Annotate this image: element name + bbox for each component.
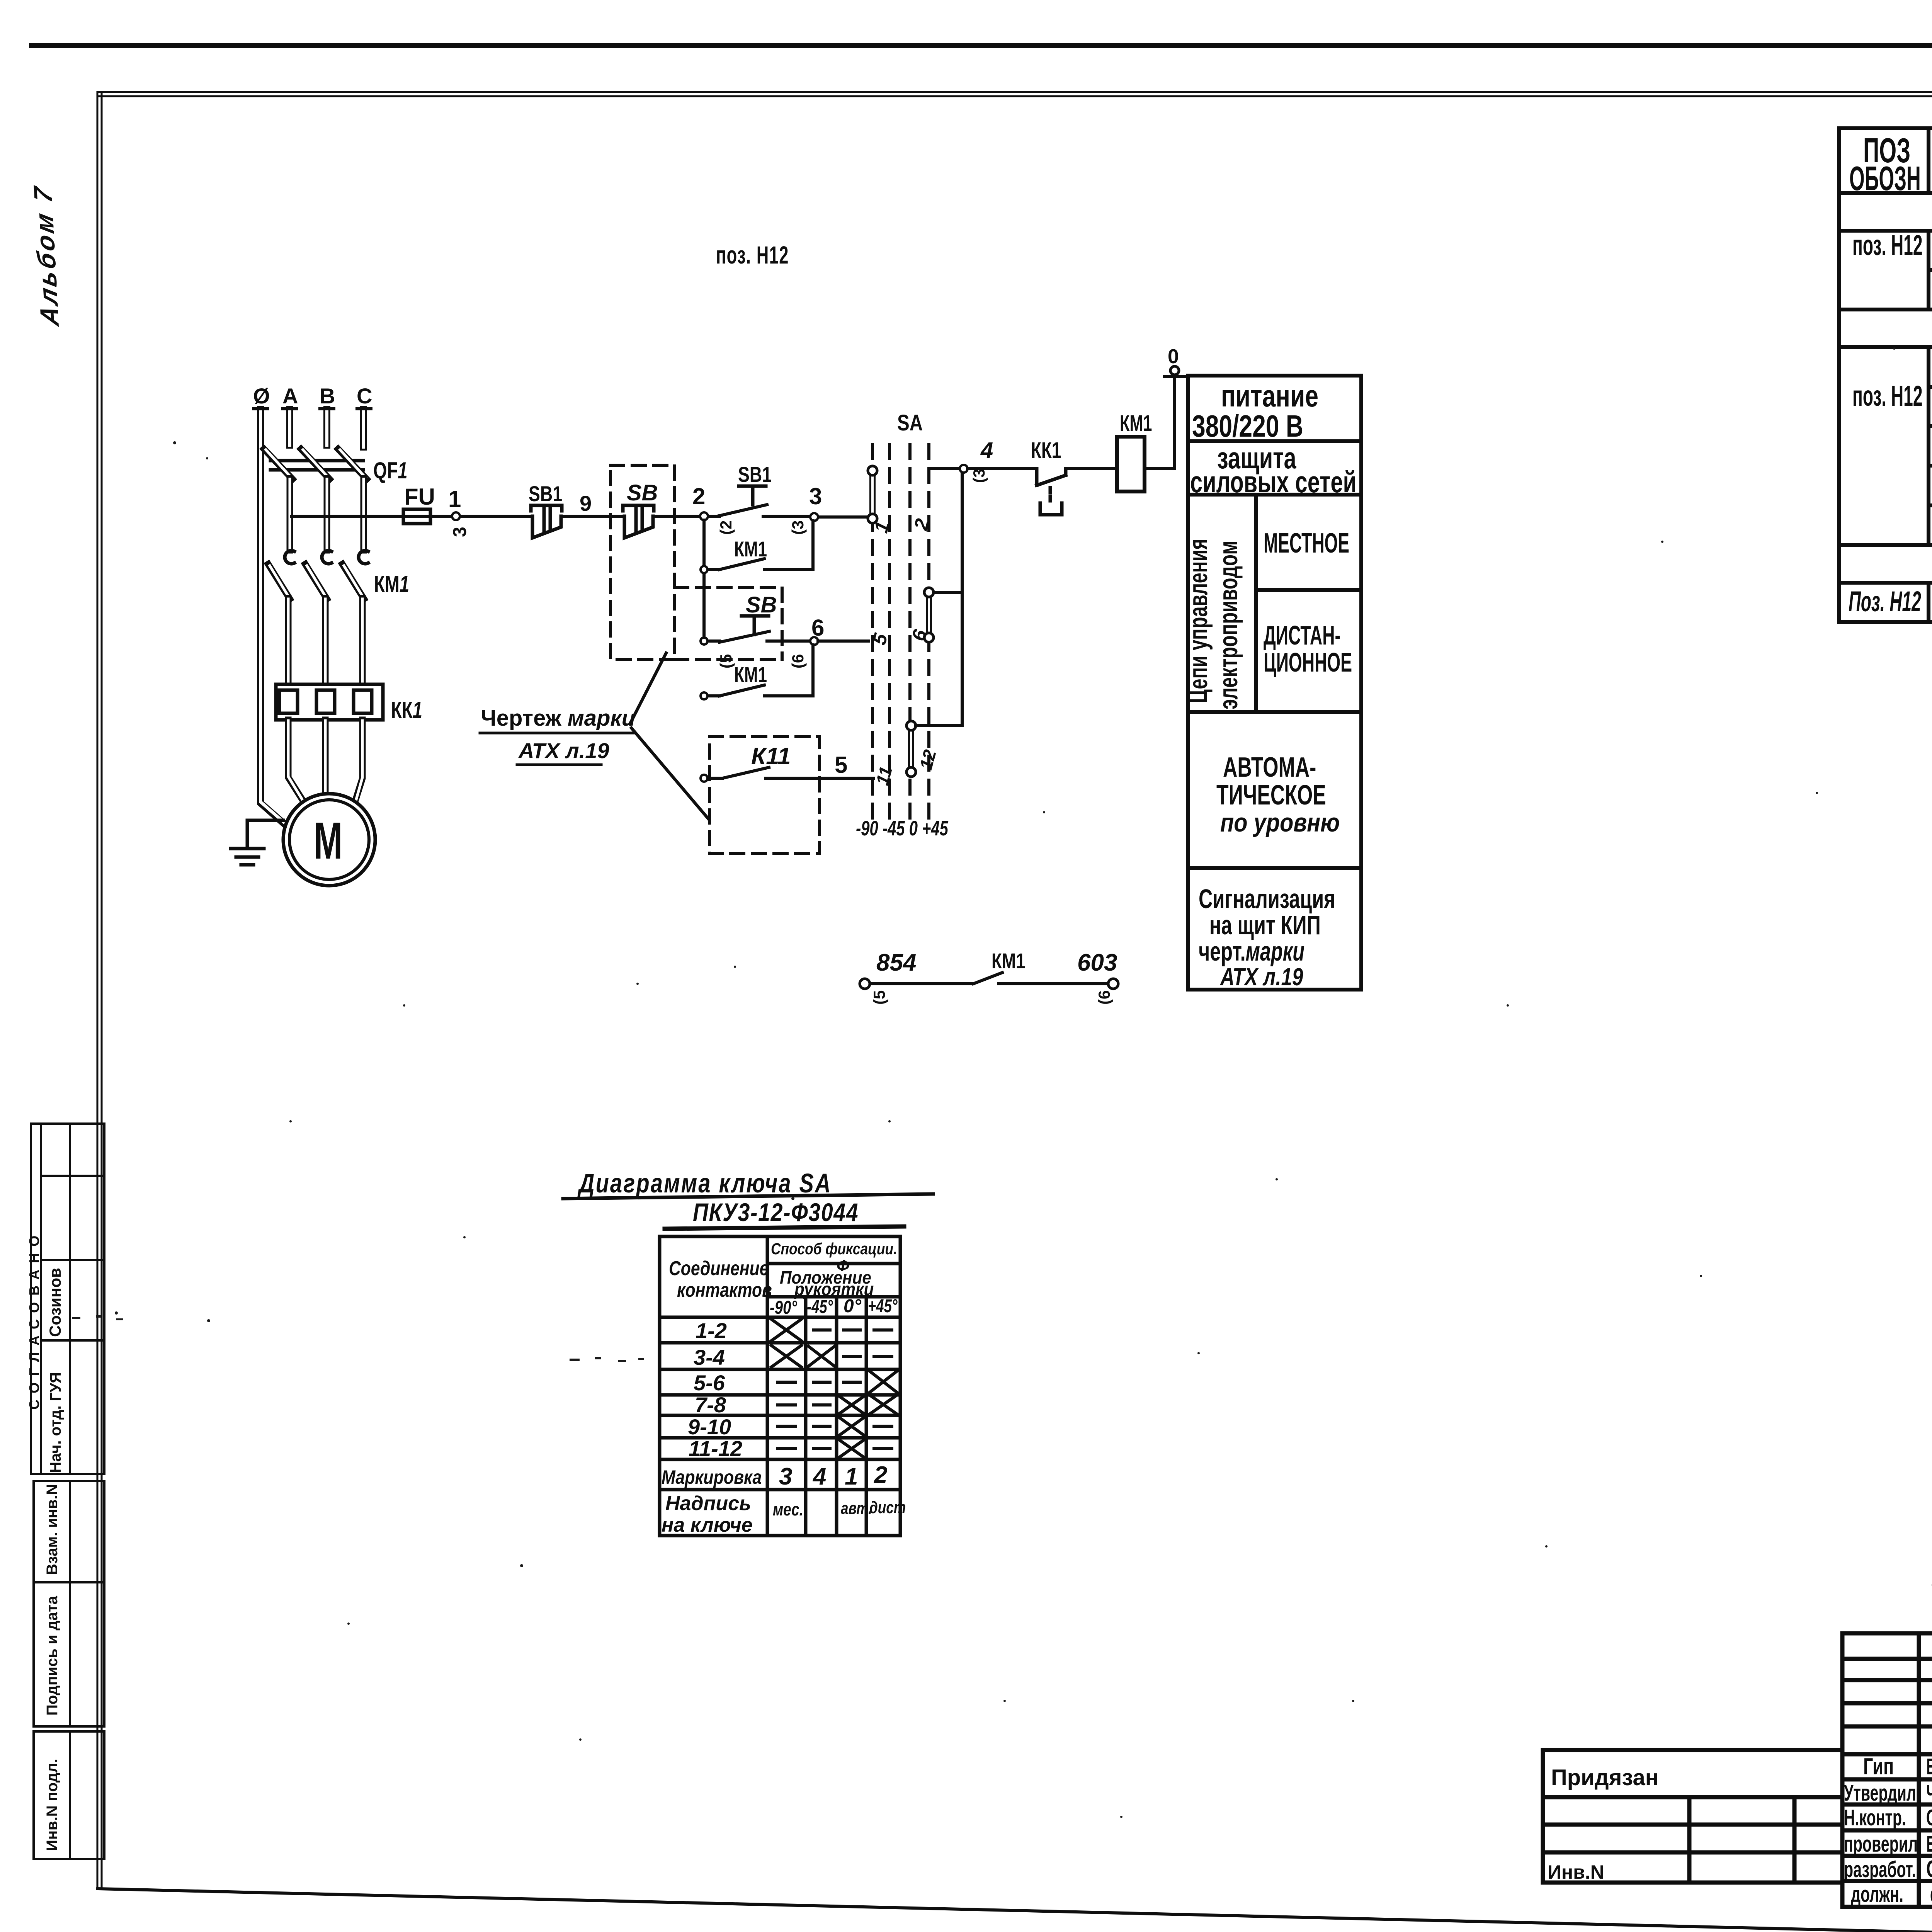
svg-text:FU: FU bbox=[404, 484, 435, 510]
connector SB1 (incoming plug) bbox=[531, 505, 562, 538]
push button SB (remote) bbox=[704, 616, 810, 642]
wire: SA to node 4 bbox=[929, 467, 961, 470]
leader lines bbox=[630, 653, 709, 819]
svg-text:9: 9 bbox=[580, 491, 592, 515]
svg-text:2: 2 bbox=[874, 1462, 887, 1488]
svg-text:на щит КИП: на щит КИП bbox=[1209, 910, 1321, 940]
circuit breaker QF1 pole C bbox=[338, 449, 367, 479]
motor M bbox=[283, 794, 375, 886]
svg-text:(3: (3 bbox=[970, 469, 988, 483]
svg-text:+45°: +45° bbox=[868, 1296, 898, 1316]
svg-text:ДИСТАН-: ДИСТАН- bbox=[1264, 621, 1340, 650]
svg-text:5-6: 5-6 bbox=[694, 1371, 725, 1395]
svg-text:3: 3 bbox=[450, 527, 470, 537]
contactor KM1 pole A (arc + blade) bbox=[285, 551, 294, 564]
svg-text:-90°: -90° bbox=[770, 1298, 797, 1318]
contactor coil KM1 bbox=[1117, 437, 1145, 492]
svg-text:(3: (3 bbox=[789, 520, 807, 535]
node 3 bbox=[810, 513, 818, 521]
key table X and dash marks bbox=[771, 1319, 897, 1458]
SA contact 1-2 bbox=[869, 475, 876, 514]
svg-text:603: 603 bbox=[1077, 949, 1117, 976]
stamp box Взам. инв.N bbox=[34, 1481, 104, 1582]
svg-text:QF1: QF1 bbox=[373, 458, 408, 483]
svg-text:КМ1: КМ1 bbox=[374, 571, 409, 597]
svg-text:А: А bbox=[282, 384, 298, 408]
svg-text:9-10: 9-10 bbox=[688, 1415, 731, 1439]
signal contact KM1 854-603 bbox=[860, 979, 870, 989]
svg-text:Взам. инв.N: Взам. инв.N bbox=[44, 1484, 61, 1575]
svg-text:3: 3 bbox=[779, 1463, 792, 1490]
svg-text:КМ1: КМ1 bbox=[992, 949, 1025, 973]
svg-text:Гип: Гип bbox=[1863, 1754, 1894, 1780]
svg-text:контактов: контактов bbox=[677, 1279, 772, 1301]
svg-text:поз. Н12: поз. Н12 bbox=[1852, 229, 1923, 261]
svg-text:Поз. Н12: Поз. Н12 bbox=[1849, 585, 1921, 617]
svg-text:проверил: проверил bbox=[1844, 1831, 1918, 1856]
svg-text:Чертеж марки: Чертеж марки bbox=[481, 706, 635, 731]
signature table rows bbox=[1842, 1659, 1932, 1907]
svg-text:ЦИОННОЕ: ЦИОННОЕ bbox=[1264, 648, 1352, 677]
circuit breaker QF1 pole A bbox=[264, 449, 293, 479]
svg-text:КМ1: КМ1 bbox=[734, 662, 767, 687]
svg-text:силовых сетей: силовых сетей bbox=[1190, 465, 1357, 499]
svg-text:(2: (2 bbox=[717, 520, 735, 535]
svg-text:1-2: 1-2 bbox=[696, 1318, 727, 1343]
dashed box: level relay K11 bbox=[709, 736, 820, 854]
contactor KM1 pole B bbox=[322, 551, 332, 564]
svg-text:3: 3 bbox=[809, 483, 822, 509]
svg-text:КК1: КК1 bbox=[1031, 437, 1061, 463]
thermal contact KK1 bbox=[1037, 469, 1066, 515]
svg-text:рукоятки: рукоятки bbox=[794, 1279, 874, 1299]
signature table columns bbox=[1919, 1633, 1932, 1907]
push button SB1 contact bbox=[717, 486, 767, 516]
svg-text:Маркировка: Маркировка bbox=[662, 1466, 762, 1488]
dashed box: remote button SB bbox=[675, 587, 782, 660]
svg-text:Подпись и дата: Подпись и дата bbox=[44, 1595, 61, 1716]
svg-text:Альбом 7: Альбом 7 bbox=[28, 183, 65, 328]
svg-text:на ключе: на ключе bbox=[662, 1514, 753, 1536]
sheet top edge line bbox=[29, 43, 1932, 48]
svg-text:Н.контр.: Н.контр. bbox=[1844, 1805, 1906, 1830]
svg-text:Ø: Ø bbox=[253, 384, 270, 408]
node 1 bbox=[452, 512, 460, 520]
svg-text:-90 -45 0 +45: -90 -45 0 +45 bbox=[856, 817, 948, 840]
drawing frame left border bbox=[97, 93, 102, 1889]
contactor KM1 pole C bbox=[359, 551, 368, 564]
svg-text:Чубинов: Чубинов bbox=[1926, 1781, 1932, 1806]
svg-text:электроприводом: электроприводом bbox=[1213, 541, 1243, 709]
svg-text:SA: SA bbox=[897, 411, 923, 436]
svg-text:Придязан: Придязан bbox=[1551, 1765, 1659, 1790]
left attachment box Придязан bbox=[1543, 1750, 1842, 1883]
wire node6 to SA5 bbox=[818, 639, 868, 643]
svg-text:1: 1 bbox=[845, 1463, 858, 1490]
svg-text:(5: (5 bbox=[870, 990, 888, 1005]
svg-text:-45°: -45° bbox=[807, 1296, 833, 1317]
svg-text:0: 0 bbox=[1168, 345, 1179, 368]
svg-text:3-4: 3-4 bbox=[694, 1345, 725, 1369]
relay contact K11 bbox=[704, 767, 874, 778]
svg-text:черт.марки: черт.марки bbox=[1199, 936, 1304, 966]
svg-text:КМ1: КМ1 bbox=[734, 537, 767, 561]
svg-text:(6: (6 bbox=[789, 654, 807, 668]
svg-text:К11: К11 bbox=[751, 743, 791, 770]
wire: phase B feeder bbox=[320, 407, 334, 410]
function column frame bbox=[1188, 376, 1361, 990]
svg-text:0°: 0° bbox=[844, 1296, 862, 1316]
dashed box: local button station SB bbox=[611, 465, 675, 660]
svg-text:380/220 В: 380/220 В bbox=[1192, 409, 1303, 444]
stamp box Подпись и дата bbox=[34, 1582, 104, 1726]
fuse FU1 bbox=[403, 515, 430, 518]
svg-text:ОБОЗН: ОБОЗН bbox=[1849, 160, 1921, 198]
node 2 bbox=[700, 512, 708, 520]
wire coil to terminal 0 bbox=[1145, 377, 1175, 469]
wire: motor leads bbox=[288, 720, 308, 809]
svg-text:SB1: SB1 bbox=[529, 481, 562, 506]
svg-text:SB1: SB1 bbox=[738, 462, 772, 486]
wire: main control line bbox=[291, 516, 868, 517]
drawing frame bottom border bbox=[98, 1889, 1932, 1932]
svg-text:СОГЛАСОВАНО: СОГЛАСОВАНО bbox=[26, 1229, 42, 1410]
svg-text:Бояринцева: Бояринцева bbox=[1926, 1755, 1932, 1779]
svg-text:должн.: должн. bbox=[1851, 1881, 1903, 1906]
svg-text:854: 854 bbox=[876, 949, 916, 976]
svg-text:Инв.N: Инв.N bbox=[1548, 1861, 1604, 1883]
scan speckles bbox=[72, 270, 1932, 1818]
svg-text:Способ фиксации.: Способ фиксации. bbox=[771, 1240, 897, 1258]
svg-text:4: 4 bbox=[812, 1463, 826, 1490]
svg-text:Нач. отд. ГУЯ: Нач. отд. ГУЯ bbox=[47, 1372, 64, 1473]
svg-text:ТИЧЕСКОЕ: ТИЧЕСКОЕ bbox=[1216, 780, 1326, 811]
wire: phase A feeder bbox=[283, 407, 297, 410]
svg-text:11: 11 bbox=[872, 764, 896, 787]
svg-text:(5: (5 bbox=[717, 654, 735, 668]
svg-text:Васильева: Васильева bbox=[1926, 1832, 1932, 1857]
wire node4 to KK1 bbox=[968, 467, 1037, 470]
wire: phase C feeder bbox=[357, 407, 371, 410]
aux contact KM1 (self hold) bbox=[704, 520, 813, 641]
ground symbol bbox=[231, 820, 283, 865]
svg-text:Скачкова: Скачкова bbox=[1926, 1856, 1932, 1883]
svg-text:Созинов: Созинов bbox=[46, 1268, 64, 1337]
svg-text:(6: (6 bbox=[1095, 990, 1113, 1005]
wire: phase 0 feeder bbox=[253, 407, 267, 410]
svg-text:7-8: 7-8 bbox=[695, 1393, 726, 1417]
svg-text:фамилия: фамилия bbox=[1930, 1882, 1932, 1907]
svg-text:ПКУ3-12-Ф3044: ПКУ3-12-Ф3044 bbox=[693, 1198, 859, 1226]
svg-text:Надпись: Надпись bbox=[665, 1492, 751, 1515]
wire: vertical collector bbox=[916, 472, 962, 726]
svg-text:по уровню: по уровню bbox=[1220, 808, 1340, 837]
svg-text:4: 4 bbox=[980, 438, 993, 463]
drawing frame top border bbox=[97, 92, 1932, 96]
svg-text:Сигнализация: Сигнализация bbox=[1199, 884, 1335, 914]
svg-text:М: М bbox=[314, 811, 342, 870]
parts table vertical lines bbox=[1927, 128, 1930, 622]
stamp box Согласовано section bbox=[31, 1124, 104, 1474]
wire KK1 to coil bbox=[1066, 467, 1117, 470]
node 4 bbox=[960, 465, 968, 473]
svg-text:SB: SB bbox=[627, 480, 658, 505]
svg-text:поз. Н12: поз. Н12 bbox=[716, 241, 789, 269]
svg-text:АТХ л.19: АТХ л.19 bbox=[518, 738, 609, 763]
svg-text:разработ.: разработ. bbox=[1844, 1857, 1916, 1882]
svg-text:12: 12 bbox=[915, 747, 940, 772]
svg-text:АВТОМА-: АВТОМА- bbox=[1223, 752, 1316, 783]
svg-text:КК1: КК1 bbox=[391, 697, 422, 723]
svg-text:авт.: авт. bbox=[841, 1499, 872, 1518]
aux contact KM1 (remote hold) bbox=[704, 645, 813, 696]
svg-text:Утвердил: Утвердил bbox=[1844, 1780, 1916, 1805]
svg-text:Стародубец: Стародубец bbox=[1926, 1806, 1932, 1830]
svg-text:МЕСТНОЕ: МЕСТНОЕ bbox=[1264, 527, 1349, 559]
svg-text:поз. Н12: поз. Н12 bbox=[1852, 380, 1923, 412]
parts table outer frame bbox=[1839, 128, 1932, 622]
svg-text:мес.: мес. bbox=[773, 1499, 803, 1519]
svg-text:6: 6 bbox=[811, 615, 824, 641]
svg-text:АТХ л.19: АТХ л.19 bbox=[1219, 964, 1303, 991]
terminal 0 bbox=[1165, 375, 1185, 378]
SA position dashed lines bbox=[872, 445, 929, 819]
svg-text:SB: SB bbox=[746, 592, 777, 617]
SA contact 5-6 bbox=[926, 597, 932, 633]
stamp box Инв.N подл. bbox=[34, 1731, 104, 1859]
svg-text:В: В bbox=[320, 384, 335, 408]
key table frame bbox=[660, 1236, 900, 1536]
svg-text:Диаграмма ключа SA: Диаграмма ключа SA bbox=[577, 1168, 832, 1198]
thermal relay KK1 heaters bbox=[276, 684, 383, 720]
svg-text:питание: питание bbox=[1221, 379, 1318, 413]
svg-text:11-12: 11-12 bbox=[689, 1436, 742, 1461]
svg-text:2: 2 bbox=[692, 483, 705, 509]
parts table horizontal lines bbox=[1839, 193, 1932, 583]
SA contact 11-12 bbox=[908, 730, 914, 767]
svg-text:Инв.N подл.: Инв.N подл. bbox=[44, 1759, 61, 1851]
node 6 bbox=[810, 637, 818, 645]
svg-text:Соединение: Соединение bbox=[669, 1257, 769, 1280]
svg-text:С: С bbox=[357, 384, 372, 408]
svg-text:1: 1 bbox=[448, 486, 461, 512]
svg-text:дист: дист bbox=[869, 1498, 906, 1517]
title block outer bbox=[1842, 1633, 1932, 1907]
circuit breaker QF1 pole B bbox=[301, 449, 330, 479]
circuit breaker QF1 trip bar bbox=[270, 461, 363, 470]
connector SB (in box) bbox=[623, 505, 654, 538]
svg-text:Цепи управления: Цепи управления bbox=[1183, 539, 1213, 703]
svg-text:КМ1: КМ1 bbox=[1120, 410, 1152, 435]
svg-text:5: 5 bbox=[835, 752, 847, 778]
